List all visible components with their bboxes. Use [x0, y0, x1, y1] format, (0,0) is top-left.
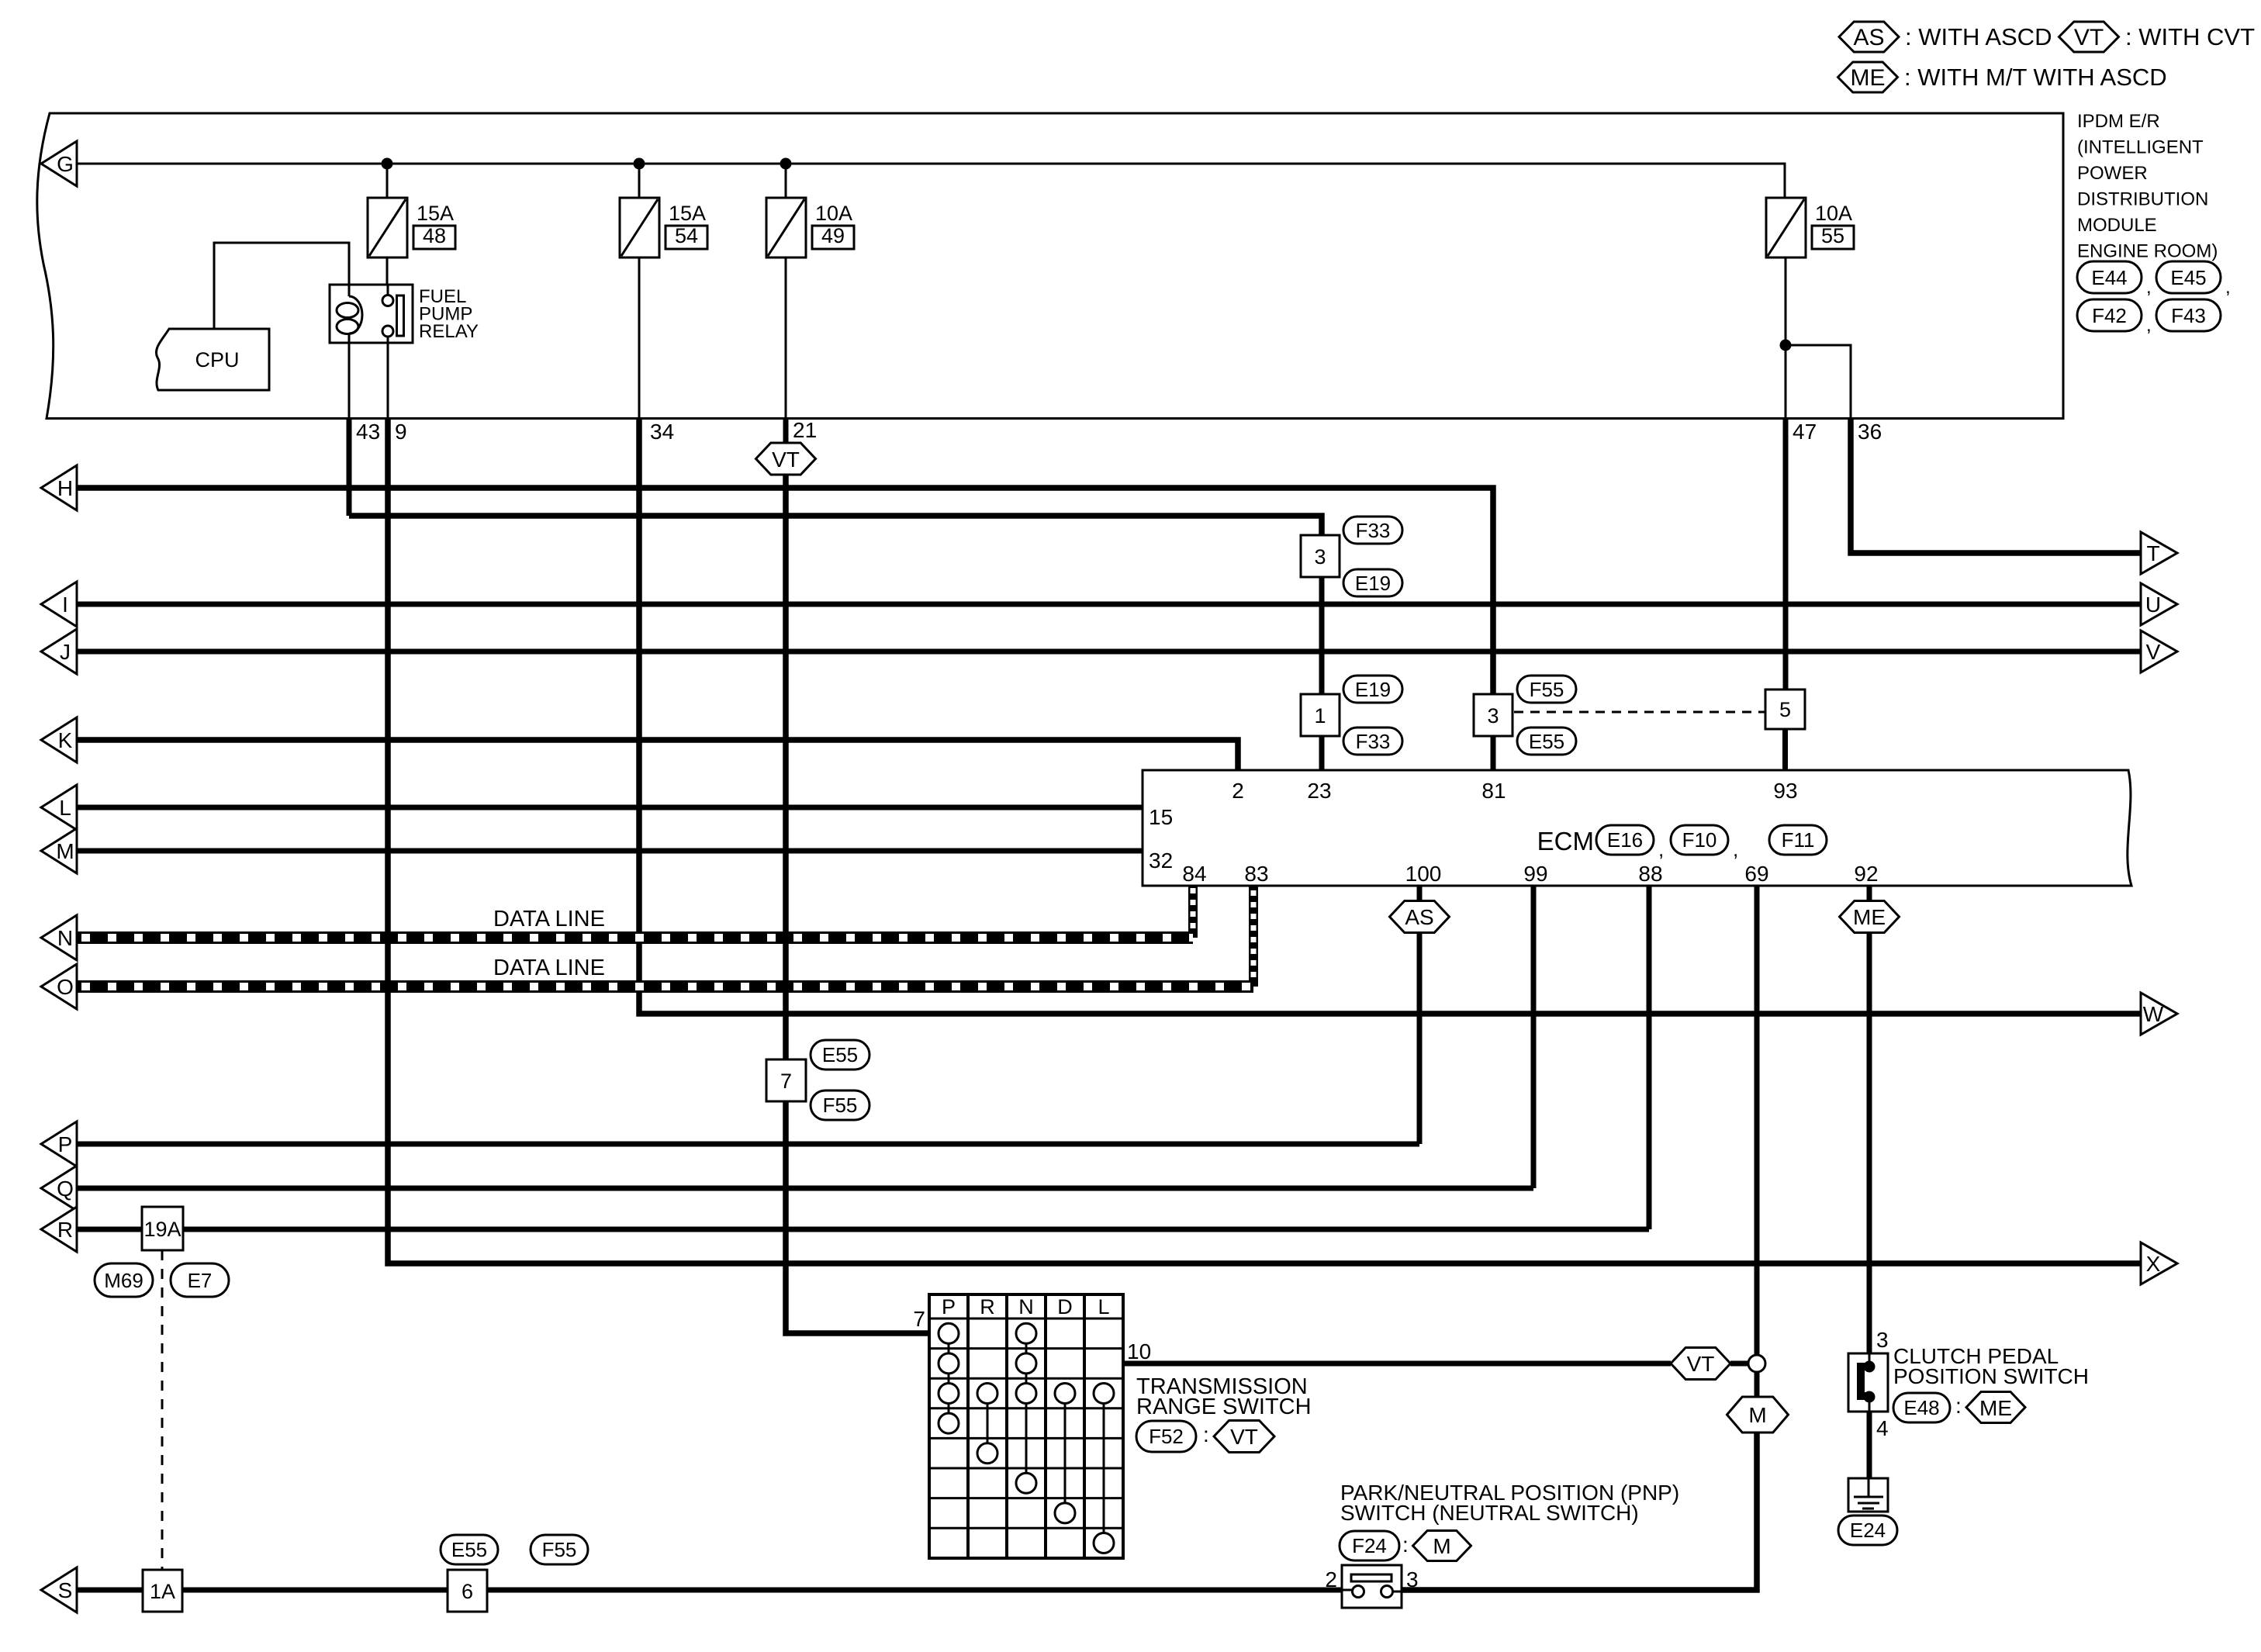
svg-text:K: K [58, 728, 73, 752]
wire 92 to clutch switch [1867, 932, 1872, 1353]
connector box 3 (F55/E55) on H wire [1474, 694, 1513, 736]
svg-text:F33: F33 [1356, 730, 1391, 753]
wire fuse 54 top [638, 164, 641, 198]
wire branch to pin 36 [1786, 345, 1851, 419]
arrow T [2141, 532, 2177, 574]
svg-text:E55: E55 [451, 1538, 487, 1561]
svg-text:F55: F55 [1530, 678, 1564, 701]
arrow H [41, 465, 77, 510]
clutch pedal position switch [1848, 1353, 1888, 1412]
svg-text:J: J [60, 640, 71, 664]
connector F55 on H wire [1517, 676, 1576, 703]
svg-text:P: P [942, 1295, 956, 1318]
AS hexagon on wire 100 [1390, 901, 1450, 933]
svg-text:9: 9 [395, 420, 407, 444]
connector box 3 (F33/E19) [1301, 535, 1340, 577]
svg-text:F33: F33 [1356, 519, 1391, 542]
wire 100 to P rail [1417, 932, 1423, 1144]
svg-text:43: 43 [356, 420, 380, 444]
svg-text:DATA LINE: DATA LINE [493, 907, 605, 931]
fuse 54 15A [620, 198, 707, 257]
svg-text:84: 84 [1182, 862, 1206, 886]
PARK/NEUTRAL POSITION label [1340, 1481, 1679, 1525]
wire connector 3 to ECM pin 81 [1491, 736, 1496, 770]
rail L to ECM pin 15 [77, 805, 1143, 810]
VT hexagon on wire 21 [756, 443, 816, 475]
ME hexagon on wire 92 [1840, 901, 1900, 933]
svg-text:(INTELLIGENT: (INTELLIGENT [2077, 137, 2204, 158]
svg-text:: WITH M/T WITH ASCD: : WITH M/T WITH ASCD [1904, 64, 2167, 91]
svg-text:DISTRIBUTION: DISTRIBUTION [2077, 189, 2208, 210]
rail P [77, 1142, 1419, 1147]
svg-text:G: G [57, 152, 74, 176]
rail H [77, 488, 1493, 694]
arrow R [41, 1207, 77, 1252]
wire VT hexagon to junction circle [1730, 1361, 1748, 1367]
svg-text:POSITION SWITCH: POSITION SWITCH [1893, 1364, 2089, 1388]
connector F24 [1340, 1531, 1399, 1560]
rail R [77, 1227, 1649, 1232]
svg-text:M69: M69 [104, 1269, 143, 1292]
legend AS hexagon : WITH ASCD [1839, 22, 2052, 52]
svg-text:F55: F55 [823, 1094, 858, 1117]
dashed wire connector 3 to connector 5 [1514, 711, 1765, 714]
PNP switch symbol [1342, 1565, 1402, 1608]
wire connector 1 to ECM pin 23 [1319, 736, 1325, 770]
fuel pump relay [330, 285, 413, 343]
connector E19 lower [1343, 676, 1402, 703]
svg-text:100: 100 [1405, 862, 1442, 886]
wire CPU to relay coil [214, 243, 349, 329]
wire fuse 49 bottom [785, 257, 787, 419]
svg-text:55: 55 [1821, 224, 1844, 247]
svg-text:,: , [2146, 315, 2152, 336]
VT hexagon for F52 [1203, 1421, 1274, 1453]
svg-text:E45: E45 [2170, 266, 2206, 289]
svg-text:L: L [1098, 1295, 1109, 1318]
svg-text:F42: F42 [2092, 304, 2127, 327]
svg-text:48: 48 [423, 224, 446, 247]
svg-text:E48: E48 [1903, 1396, 1939, 1419]
data line O to ECM pin 83 [77, 886, 1253, 987]
svg-text:81: 81 [1481, 779, 1506, 803]
data line N to ECM pin 84 [77, 886, 1193, 938]
arrow V [2141, 631, 2177, 672]
svg-text:R: R [57, 1218, 73, 1242]
svg-text:L: L [59, 796, 71, 820]
svg-text:,: , [1658, 838, 1664, 861]
svg-text:DATA LINE: DATA LINE [493, 956, 605, 980]
svg-text:AS: AS [1405, 905, 1433, 929]
connector E44 [2077, 261, 2142, 293]
svg-text:X: X [2146, 1252, 2161, 1276]
svg-text:1: 1 [1314, 704, 1326, 728]
arrow I [41, 582, 77, 627]
rail J to V [77, 649, 2141, 655]
wire 9 down to X rail [388, 419, 2141, 1264]
ME hexagon for E48 [1955, 1392, 2025, 1423]
svg-text:7: 7 [780, 1070, 792, 1093]
svg-text:92: 92 [1854, 862, 1878, 886]
connector F52 [1136, 1421, 1196, 1452]
fuse 48 15A [368, 198, 455, 257]
junction dot fuse 54 [634, 158, 645, 170]
connector E16 [1596, 825, 1654, 855]
svg-text:M: M [1748, 1403, 1766, 1427]
svg-text:VT: VT [1687, 1352, 1715, 1376]
svg-text:E7: E7 [188, 1269, 213, 1292]
wire fuse 54 bottom [638, 257, 641, 419]
svg-text:4: 4 [1876, 1416, 1889, 1440]
connector box 7 on wire 21 [766, 1059, 806, 1101]
svg-text:93: 93 [1773, 779, 1797, 803]
svg-text:34: 34 [650, 420, 674, 444]
wire fuse 48 top [386, 164, 389, 198]
connector box 5 on wire 47 [1765, 689, 1805, 729]
svg-text:U: U [2145, 593, 2161, 617]
svg-text:36: 36 [1858, 420, 1882, 444]
connector box 6 on rail S [448, 1570, 487, 1612]
IPDM E/R label [2077, 111, 2218, 262]
junction dot fuse 48 [382, 158, 393, 170]
svg-text:88: 88 [1638, 862, 1662, 886]
VT hexagon on pin 10 rail [1671, 1348, 1730, 1380]
svg-text:21: 21 [793, 418, 817, 442]
rail S [77, 1588, 1342, 1593]
svg-text:ENGINE ROOM): ENGINE ROOM) [2077, 241, 2218, 262]
svg-text:3: 3 [1876, 1328, 1889, 1352]
svg-text:19A: 19A [143, 1218, 181, 1241]
rail TRS pin 10 to VT hexagon [1123, 1361, 1671, 1367]
svg-text:M: M [56, 839, 74, 863]
svg-text::: : [1955, 1394, 1962, 1418]
connector F33 upper [1343, 517, 1402, 544]
svg-text:3: 3 [1314, 545, 1326, 569]
svg-text:M: M [1433, 1534, 1450, 1558]
arrow P [41, 1121, 77, 1166]
svg-text:83: 83 [1244, 862, 1268, 886]
svg-text:: WITH CVT: : WITH CVT [2125, 23, 2255, 50]
arrow X [2141, 1242, 2177, 1284]
svg-text:23: 23 [1307, 779, 1331, 803]
svg-text:VT: VT [772, 448, 800, 472]
svg-text::: : [1203, 1422, 1209, 1446]
junction circle on wire 69 [1748, 1355, 1765, 1372]
transmission range switch grid [929, 1294, 1123, 1558]
rail Q [77, 1186, 1533, 1191]
svg-text:: WITH ASCD: : WITH ASCD [1905, 23, 2052, 50]
svg-text:S: S [58, 1578, 73, 1602]
svg-text:15: 15 [1149, 805, 1173, 829]
wire 34 down to W rail [639, 419, 2141, 1014]
arrow L [41, 785, 77, 830]
connector box 1 (E19/F33) [1301, 694, 1340, 736]
svg-text:E44: E44 [2091, 266, 2127, 289]
svg-text:2: 2 [1232, 779, 1244, 803]
connector E19 upper [1343, 569, 1402, 596]
arrow O [41, 964, 77, 1009]
connector box 1A on rail S [143, 1570, 182, 1612]
connector F10 [1658, 825, 1728, 861]
svg-text:10A: 10A [1815, 202, 1852, 225]
wire relay pin 9 inside box [387, 343, 389, 419]
wire connector 5 to ECM pin 93 [1782, 729, 1788, 770]
wire 36 to T rail [1851, 419, 2141, 554]
wire 21 upper [783, 419, 789, 444]
arrow K [41, 717, 77, 762]
svg-text:5: 5 [1779, 698, 1791, 721]
svg-text:IPDM E/R: IPDM E/R [2077, 111, 2160, 132]
svg-text:W: W [2143, 1002, 2164, 1026]
wire connector 3 to connector 1 [1319, 577, 1325, 694]
svg-text:N: N [1018, 1295, 1034, 1318]
M hexagon on wire 69 [1727, 1397, 1789, 1433]
svg-text:MODULE: MODULE [2077, 215, 2157, 236]
rail I to U [77, 602, 2141, 607]
arrow U [2141, 583, 2177, 625]
svg-text:V: V [2146, 640, 2161, 664]
connector E55 on H wire [1517, 728, 1576, 755]
wire 47 down to connector 5 [1783, 419, 1789, 690]
svg-text:6: 6 [462, 1580, 473, 1603]
svg-text:10: 10 [1127, 1339, 1151, 1363]
svg-text:F11: F11 [1782, 828, 1815, 852]
connector E55 on wire 21 [811, 1040, 869, 1070]
svg-text:VT: VT [1230, 1425, 1258, 1449]
connector E55 above box 6 [441, 1535, 498, 1564]
connector F43 [2146, 299, 2221, 336]
wire fuse 55 bottom [1785, 257, 1787, 419]
svg-text:E16: E16 [1607, 828, 1643, 852]
svg-text:F55: F55 [542, 1538, 577, 1561]
junction dot fuse 49 [780, 158, 792, 170]
wire 100 upper [1417, 886, 1423, 901]
svg-text:1A: 1A [150, 1580, 175, 1603]
svg-text:15A: 15A [669, 202, 706, 225]
connector E7 [171, 1263, 229, 1297]
dashed wire 19A to 1A [161, 1250, 164, 1570]
connector E48 [1893, 1393, 1950, 1422]
svg-text:P: P [58, 1132, 73, 1156]
wire clutch switch to ground [1867, 1412, 1872, 1478]
connector E45 [2146, 261, 2231, 298]
wire relay pin 43 inside box [348, 343, 351, 419]
svg-text:ME: ME [1979, 1396, 2012, 1420]
wire 99 to Q rail [1531, 886, 1537, 1188]
svg-text:F43: F43 [2171, 304, 2206, 327]
FUEL PUMP RELAY label [419, 286, 479, 342]
svg-text:3: 3 [1487, 704, 1499, 728]
arrow J [41, 629, 77, 674]
svg-text:F24: F24 [1352, 1534, 1387, 1557]
IPDM E/R box (torn left edge) [37, 113, 2063, 419]
TRANSMISSION RANGE SWITCH label [1136, 1374, 1312, 1419]
svg-text:N: N [57, 926, 73, 950]
svg-text:E55: E55 [1529, 730, 1564, 753]
arrow Q [41, 1166, 77, 1211]
wire 43 to branch [347, 419, 352, 517]
rail M to ECM pin 32 [77, 848, 1143, 854]
legend VT hexagon : WITH CVT [2059, 22, 2256, 52]
svg-text:ME: ME [1853, 905, 1886, 929]
svg-text:E19: E19 [1355, 572, 1391, 595]
svg-text:O: O [57, 975, 74, 999]
arrow S [41, 1567, 77, 1612]
wire 21 down to TRS pin 7 [786, 475, 929, 1333]
fuse 49 10A [766, 198, 854, 257]
wire fuse 49 top [785, 164, 787, 198]
connector E24 [1838, 1515, 1897, 1545]
connector F55 on wire 21 [811, 1090, 869, 1120]
svg-text:POWER: POWER [2077, 163, 2148, 184]
wire 88 to R rail [1647, 886, 1652, 1229]
fuse 55 10A [1766, 198, 1854, 257]
svg-text:54: 54 [675, 224, 698, 247]
svg-text:,: , [1733, 838, 1738, 861]
svg-text:,: , [2225, 277, 2231, 298]
svg-text:49: 49 [821, 224, 845, 247]
svg-text:3: 3 [1406, 1567, 1419, 1592]
svg-text:Q: Q [57, 1177, 74, 1201]
arrow G [41, 141, 77, 186]
svg-text:T: T [2146, 541, 2159, 565]
arrow W [2141, 993, 2177, 1035]
legend ME hexagon : WITH M/T WITH ASCD [1838, 62, 2167, 92]
svg-text:E19: E19 [1355, 678, 1391, 701]
junction dot fuse 55 branch [1780, 340, 1792, 351]
svg-text:RELAY: RELAY [419, 321, 479, 342]
svg-text::: : [1402, 1533, 1409, 1557]
svg-text:7: 7 [913, 1307, 925, 1331]
arrow N [41, 915, 77, 960]
svg-text:VT: VT [2074, 25, 2104, 50]
connector F11 [1733, 825, 1827, 861]
M hexagon for F24 [1402, 1531, 1471, 1561]
svg-text:H: H [57, 476, 73, 500]
connector F55 above box 6 [531, 1535, 588, 1564]
svg-text:32: 32 [1149, 848, 1173, 873]
CPU box [156, 329, 269, 390]
svg-text:I: I [62, 593, 68, 617]
wire 69 middle [1755, 1372, 1760, 1397]
CLUTCH PEDAL POSITION SWITCH label [1893, 1344, 2089, 1388]
svg-text:CPU: CPU [195, 348, 239, 372]
rail K to ECM pin 2 [77, 740, 1238, 770]
arrow M [41, 828, 77, 873]
svg-text:F52: F52 [1149, 1425, 1184, 1448]
svg-text:99: 99 [1523, 862, 1547, 886]
svg-text:47: 47 [1793, 420, 1817, 444]
svg-text:F10: F10 [1682, 828, 1717, 852]
wire 69 to PNP switch [1402, 1433, 1757, 1590]
svg-text:RANGE SWITCH: RANGE SWITCH [1136, 1395, 1312, 1419]
svg-text:E24: E24 [1850, 1519, 1886, 1542]
svg-text:D: D [1057, 1295, 1073, 1318]
connector F42 [2077, 299, 2142, 331]
wire fuse 48 to relay [386, 257, 389, 285]
connector F33 lower [1343, 728, 1402, 755]
wire 69 upper [1755, 886, 1760, 1355]
svg-text:E55: E55 [822, 1043, 858, 1066]
svg-text:R: R [980, 1295, 995, 1318]
svg-text:,: , [2146, 277, 2152, 298]
ground E24 [1848, 1478, 1888, 1512]
svg-text:AS: AS [1853, 25, 1884, 50]
wire 92 upper [1867, 886, 1872, 901]
svg-text:ME: ME [1851, 65, 1886, 91]
svg-text:69: 69 [1744, 862, 1768, 886]
connector box 19A on rail R [142, 1207, 183, 1250]
svg-text:ECM: ECM [1537, 827, 1594, 855]
connector M69 [95, 1263, 153, 1297]
svg-text:10A: 10A [815, 202, 852, 225]
wire 43 branch to connector 3 [349, 516, 1322, 535]
wire G bus [77, 164, 1785, 198]
svg-text:2: 2 [1325, 1567, 1337, 1592]
svg-text:SWITCH (NEUTRAL SWITCH): SWITCH (NEUTRAL SWITCH) [1340, 1501, 1639, 1525]
svg-text:15A: 15A [417, 202, 454, 225]
ECM box (torn right edge) [1143, 770, 2131, 886]
